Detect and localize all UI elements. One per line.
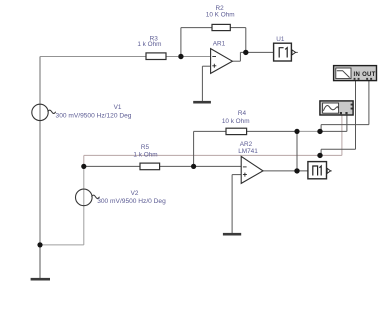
svg-text:AR2: AR2 [240, 141, 253, 148]
svg-text:V2: V2 [131, 190, 139, 197]
svg-text:300 mV/9500 Hz/120 Deg: 300 mV/9500 Hz/120 Deg [56, 113, 132, 120]
svg-text:R5: R5 [141, 144, 150, 151]
svg-text:1 k Ohm: 1 k Ohm [137, 41, 161, 48]
svg-text:R4: R4 [238, 110, 247, 117]
svg-text:10 k Ohm: 10 k Ohm [222, 118, 250, 125]
svg-text:V1: V1 [114, 104, 122, 111]
svg-text:IN OUT: IN OUT [354, 72, 376, 78]
svg-text:U1: U1 [276, 36, 285, 43]
svg-text:300 mV/9500 Hz/0 Deg: 300 mV/9500 Hz/0 Deg [97, 198, 166, 205]
svg-text:1 k Ohm: 1 k Ohm [133, 151, 157, 158]
svg-text:AR1: AR1 [213, 40, 226, 47]
svg-text:10 K Ohm: 10 K Ohm [206, 12, 235, 19]
svg-text:LM741: LM741 [238, 148, 258, 155]
